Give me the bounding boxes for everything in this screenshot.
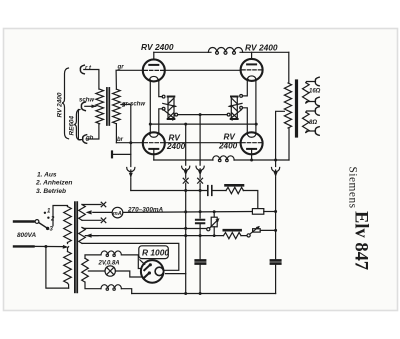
- wire plate line to output primary bottom: [288, 128, 290, 160]
- wire switch to primary top: [53, 206, 68, 226]
- filament winding S2: [79, 228, 86, 244]
- output transformer T2 primary tap: [276, 111, 285, 160]
- svg-text:RE604: RE604: [69, 116, 76, 136]
- wire coil B to bottom bus: [121, 289, 131, 294]
- node V1 leg/filament line: [149, 123, 152, 126]
- wire schw tap arrow: [85, 105, 96, 107]
- filter coil LA: [101, 251, 121, 257]
- output transformer T2 core: [295, 81, 298, 136]
- svg-text:16Ω: 16Ω: [309, 89, 321, 95]
- bus1 stub to rectifier: [166, 273, 186, 275]
- node V2-V4 leg/filament line: [255, 123, 258, 126]
- svg-text:mA: mA: [113, 211, 122, 217]
- svg-text:schw: schw: [79, 98, 94, 104]
- node bus1/rail235: [184, 234, 187, 237]
- mains transformer T3 primary lower: [64, 252, 72, 284]
- node filament/bus1: [184, 123, 187, 126]
- node bus2/rail235: [199, 234, 202, 237]
- pilot lamp 2V 0.8A: [105, 266, 115, 276]
- brace RV 2400 (left): [62, 68, 69, 139]
- switch contact dot 2: [47, 217, 49, 219]
- mains transformer T3 primary upper: [64, 207, 72, 243]
- wire: grid bus V3-V4: [116, 142, 142, 144]
- wire wiper line y114.6: [178, 114, 228, 116]
- svg-text:Elv 847: Elv 847: [351, 211, 371, 270]
- svg-text:RV 2400: RV 2400: [57, 92, 64, 117]
- choke L1 (anode choke, top): [208, 47, 242, 54]
- switch S1 lever: [39, 223, 48, 229]
- node box/B+ bus: [274, 210, 277, 213]
- terminal gb: [83, 135, 87, 144]
- S3 bottom lead to coil B: [85, 282, 101, 289]
- wire V1 left leg down: [149, 81, 151, 124]
- wire rail y235.6 (bias rail): [85, 235, 247, 237]
- switch S1 pivot: [35, 220, 39, 224]
- node bus2/rail211: [199, 210, 202, 213]
- terminal rt: [80, 65, 84, 74]
- node wiper/bus2: [199, 113, 202, 116]
- connector plug-socket (bias): [127, 168, 135, 172]
- rectifier R1000 label box: [139, 246, 169, 259]
- wire secondary top to grid bus: [115, 70, 117, 89]
- wire bottom bus: [132, 293, 276, 295]
- node bias/grid bus crossing: [129, 141, 132, 144]
- S2 bottom lead to rectifier: [82, 243, 179, 270]
- wire: bottom plate line: [154, 159, 213, 161]
- node bus2/rail190: [199, 189, 202, 192]
- rectifier winding S3: [82, 258, 89, 282]
- wire coil A to rectifier filament: [121, 255, 141, 269]
- wire V3 right filament leg to P1: [159, 109, 162, 133]
- box resistor R2: [252, 209, 263, 215]
- node V4 plate on line: [250, 159, 253, 162]
- output transformer T2 secondary 8ohm: [303, 107, 320, 136]
- svg-text:2V,0.8A: 2V,0.8A: [98, 261, 120, 267]
- wire V2 left filament leg to P2: [243, 81, 248, 96]
- HV lead top with x link: [82, 204, 101, 206]
- resistor R1 (zigzag with bar): [226, 185, 244, 193]
- brace RE 604 (inner): [74, 110, 80, 141]
- triode V2: [241, 52, 263, 81]
- wire rt to primary: [84, 70, 99, 90]
- node C3/bottom: [199, 292, 202, 295]
- svg-text:r t: r t: [85, 66, 92, 72]
- connector plug-socket (filament bus1): [185, 124, 187, 165]
- svg-text:RV 2400: RV 2400: [245, 43, 278, 53]
- wire gb to primary bottom: [86, 124, 99, 139]
- electrolytic C3 (on bus2): [196, 260, 205, 263]
- meter mA: [112, 207, 123, 218]
- capacitor C1 (series, rail190): [208, 186, 212, 196]
- potentiometer P2 (hum balance V2/V4): [227, 95, 242, 121]
- wire: top plate line: [154, 51, 211, 53]
- svg-text:1. Aus: 1. Aus: [37, 172, 57, 179]
- chassis tap T-bar: [111, 152, 113, 158]
- node bus1/bottom: [184, 292, 187, 295]
- node bus1/rail190: [184, 189, 187, 192]
- S3 centre tap to lamp: [88, 270, 105, 272]
- resistor R3 (zigzag with bar): [224, 230, 242, 239]
- node mains/loop: [44, 245, 47, 248]
- filter coil LB: [101, 285, 121, 291]
- wire top plate line down to output primary top: [288, 52, 290, 83]
- mains transformer T3 core: [74, 202, 76, 292]
- wire filament line y124.1: [150, 123, 256, 125]
- HV centre tap arrow to meter: [93, 211, 113, 213]
- svg-text:RV 2400: RV 2400: [141, 42, 174, 52]
- wire mains loop to primary bottom: [46, 247, 69, 289]
- choke L2 (anode choke, bottom): [213, 156, 235, 162]
- svg-text:gr: gr: [117, 64, 125, 71]
- wire secondary centre tap: [121, 104, 131, 106]
- mains input top: [14, 220, 34, 222]
- HV winding S1: [79, 205, 86, 221]
- electrolytic C4 (on B+ bus): [271, 260, 280, 263]
- wire V1 right filament leg to P1: [159, 81, 162, 97]
- rectifier tube R1000: [140, 260, 164, 283]
- node B+ tap on plate line: [274, 159, 277, 162]
- triode V4: [241, 124, 263, 160]
- link x mark bus2: [198, 178, 203, 183]
- link x mark bus1: [183, 178, 188, 183]
- S2 centre tap arrow: [93, 235, 98, 237]
- capacitor C2 (shunt on bus2): [196, 220, 204, 223]
- connector plug-socket (bus2): [199, 115, 201, 166]
- input transformer T1 core: [106, 88, 108, 125]
- HV lead bottom with x link: [82, 219, 101, 221]
- wire rail y190.5: [131, 190, 226, 192]
- mains input bottom: [14, 245, 34, 247]
- wire secondary bottom to grid bus V3: [115, 124, 117, 143]
- node TR2/B+ bus: [274, 229, 277, 232]
- node trimmer top/rail211: [213, 210, 216, 213]
- wire: grid bus V1-V2: [116, 69, 143, 71]
- svg-text:Siemens: Siemens: [347, 167, 359, 209]
- svg-text:270–300mA: 270–300mA: [127, 206, 164, 213]
- potentiometer P1 (hum balance V1/V3): [162, 95, 177, 121]
- wire schw-gb link: [78, 110, 82, 140]
- connector plug-socket (B+ bus): [275, 160, 277, 167]
- wire bias column x130.8: [130, 105, 132, 167]
- output transformer T2 secondary 16ohm: [303, 77, 320, 106]
- terminal schw: [81, 102, 85, 111]
- svg-text:3. Betrieb: 3. Betrieb: [36, 188, 66, 195]
- triode V3: [143, 124, 165, 160]
- svg-text:RV: RV: [224, 133, 237, 142]
- svg-text:R 1000: R 1000: [142, 247, 169, 257]
- wire V2 right leg down: [255, 81, 257, 125]
- wire R1 to box resistor: [243, 191, 258, 210]
- svg-text:8Ω: 8Ω: [309, 120, 317, 126]
- svg-text:2. Anheizen: 2. Anheizen: [35, 180, 72, 187]
- wire rail y211.5 (mA line right part): [123, 211, 252, 214]
- node bus1/rail228: [184, 227, 187, 230]
- input transformer T1 secondary: [113, 89, 121, 124]
- wire V4 left filament leg to P2: [243, 108, 248, 133]
- S3 top lead to coil A: [85, 255, 101, 258]
- trimmer TR1 (vertical, adjustable): [207, 212, 220, 236]
- node bus1/rail211: [184, 210, 187, 213]
- output transformer T2 primary: [284, 83, 291, 128]
- wire lamp to rectifier: [115, 271, 141, 277]
- triode V1: [143, 52, 165, 81]
- trimmer TR2 (tap arrow with link): [247, 226, 276, 237]
- svg-text:800VA: 800VA: [17, 232, 36, 239]
- input transformer T1 primary: [96, 89, 104, 124]
- wire rail y228.3 (filament winding top): [82, 228, 207, 229]
- svg-text:br: br: [117, 137, 124, 143]
- switch contact dot 1: [44, 212, 46, 214]
